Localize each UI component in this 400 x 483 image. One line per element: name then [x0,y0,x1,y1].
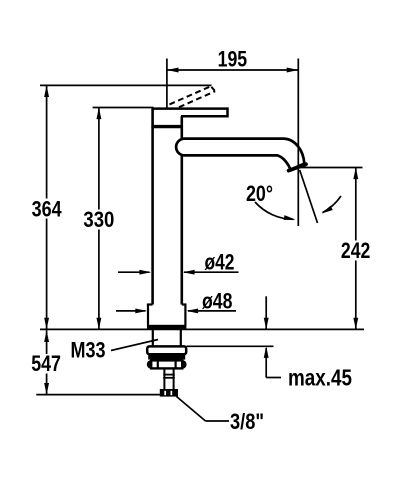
supply tailpiece [163,369,175,389]
mounting nut [147,360,187,369]
dimension 195 [167,59,298,227]
reference line hose end (547) [36,394,164,396]
svg-text:ø42: ø42 [205,249,235,274]
deck line [40,328,364,330]
dimension 242 [355,168,357,330]
dimension ø42 [118,271,239,273]
svg-text:195: 195 [218,47,248,72]
reference line spout outlet (242) [299,167,363,169]
svg-text:max.45: max.45 [288,364,352,390]
spout outlet rim [289,164,306,170]
gasket washer [147,346,186,354]
svg-text:ø48: ø48 [202,289,233,314]
mounting shank below deck [153,330,181,347]
dimension ø48 [116,310,236,312]
svg-text:3/8": 3/8" [230,409,264,434]
reference line deck underside (max.45) [187,345,274,347]
lever handle [151,109,227,127]
dimension 547 [46,330,48,394]
label 3/8 inch [177,397,230,422]
svg-text:M33: M33 [71,338,106,363]
dimension 330 [98,108,100,330]
lever handle raised (dashed) [170,86,216,107]
3/8 inch connector nut [160,389,178,397]
reference line top of lever (364) [40,84,212,86]
reference line top of body (330) [93,107,154,109]
angle 20 degrees [255,170,341,223]
base flange (ø48 section) [147,305,187,327]
svg-text:364: 364 [32,196,63,221]
svg-text:547: 547 [31,351,61,376]
leader M33 [111,340,158,351]
metal washer [148,354,185,359]
svg-text:20°: 20° [246,181,273,206]
faucet body column [153,109,182,305]
svg-text:242: 242 [341,238,370,263]
dimension 364 [46,85,48,329]
svg-text:330: 330 [83,207,114,232]
spout [176,139,304,170]
dimension max.45 [266,296,281,377]
